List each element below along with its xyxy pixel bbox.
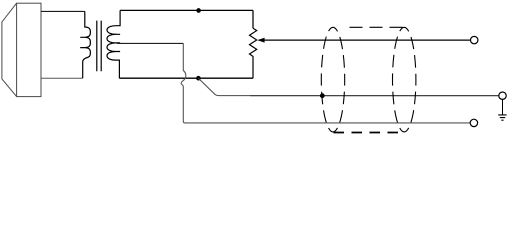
wire loop right upper [252, 10, 254, 28]
microphone MIC body [17, 3, 41, 96]
wire diagonal from bottom node to middle line [198, 78, 250, 95]
wire mic top to transformer [41, 10, 85, 12]
wire wiper to top terminal [264, 39, 471, 41]
junction dot top node [196, 8, 201, 13]
terminal bottom output [470, 119, 477, 126]
potentiometer R1 zigzag [250, 28, 257, 78]
wire middle to shield terminal [250, 95, 499, 97]
wire loop bottom [119, 77, 253, 79]
wire loop top [120, 9, 253, 11]
ground symbol [498, 115, 506, 120]
cable shield left ellipse [321, 27, 344, 132]
terminal top output [471, 36, 478, 43]
tap wire horizontal from secondary [117, 42, 183, 44]
terminal middle shield output [499, 92, 506, 99]
transformer T1 secondary winding [107, 10, 120, 78]
cable shield right ellipse [393, 27, 416, 132]
cable shield top dashed line [350, 26, 405, 28]
ground lead [502, 99, 504, 115]
junction dot bottom node [196, 76, 201, 81]
microphone MIC horn [2, 3, 17, 96]
cable shield bottom dashed line [334, 132, 405, 134]
potentiometer R1 wiper arrow [257, 38, 264, 43]
junction dot shield connection [320, 93, 325, 98]
transformer T1 core [97, 21, 101, 72]
wire mic bottom to transformer [41, 77, 83, 79]
transformer T1 primary winding [80, 11, 90, 78]
tap wire vertical with hop over loop bottom [181, 43, 470, 123]
